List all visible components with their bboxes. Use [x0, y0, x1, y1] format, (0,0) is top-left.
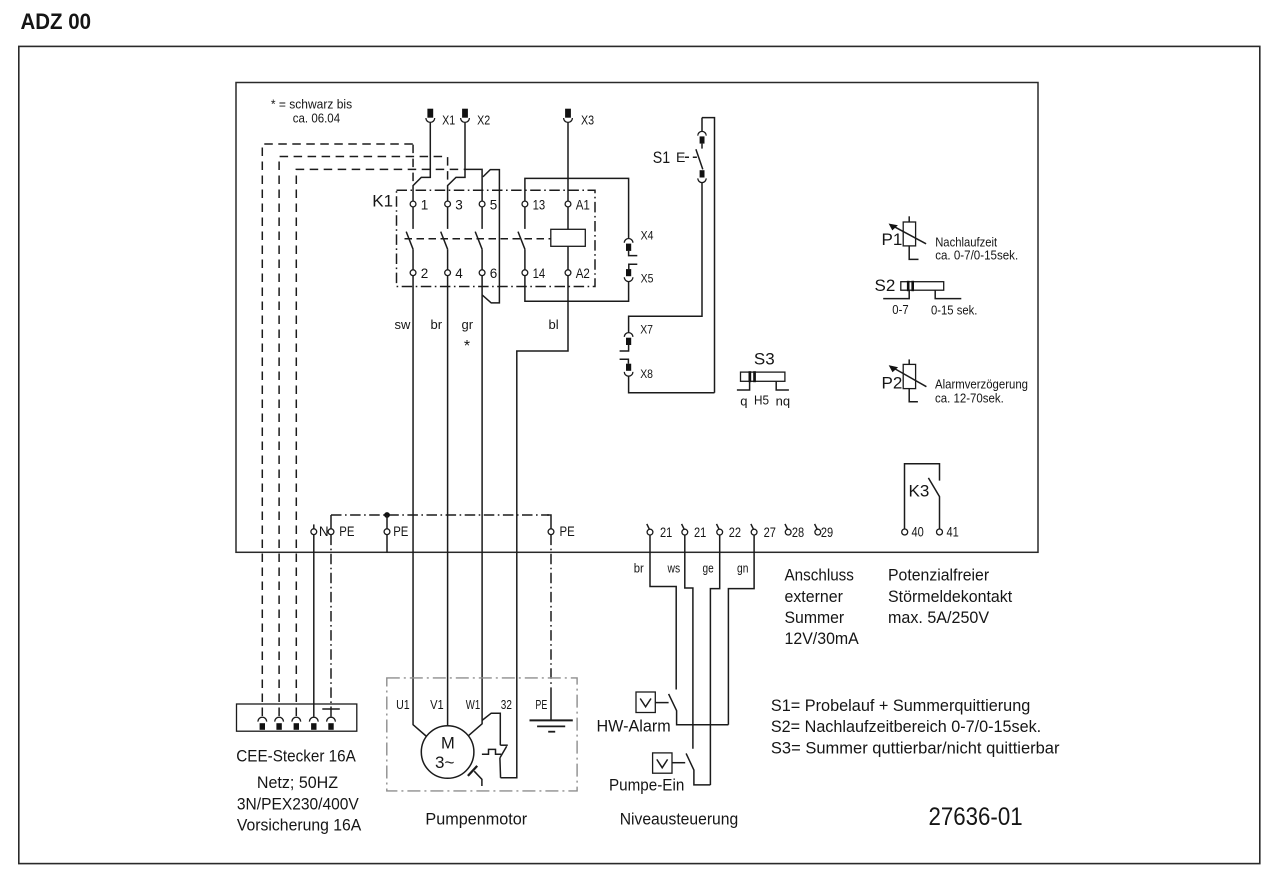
wire 32 branch from gr to thermal contact: [482, 713, 500, 745]
svg-text:Summer: Summer: [785, 608, 845, 627]
motor M 3~ circle: [421, 726, 474, 779]
svg-text:H5: H5: [754, 393, 769, 408]
terminal 21 (second): [682, 524, 685, 529]
svg-text:PE: PE: [339, 524, 354, 539]
svg-text:S2= Nachlaufzeitbereich 0-7/0-: S2= Nachlaufzeitbereich 0-7/0-15sek.: [771, 717, 1041, 736]
contactor K1 dash-dot enclosure: [397, 190, 596, 286]
svg-text:U1: U1: [396, 697, 410, 712]
svg-text:X8: X8: [640, 367, 653, 381]
svg-text:28: 28: [792, 525, 804, 540]
float switch HW-Alarm: [636, 692, 728, 725]
svg-text:Anschluss: Anschluss: [785, 566, 854, 585]
wire gn from terminal 27 to HW-Alarm output: [728, 535, 754, 725]
CEE plug housing: [237, 704, 357, 731]
terminal X5: [624, 264, 653, 285]
legend S1 S2 S3: [771, 696, 1060, 758]
svg-text:PE: PE: [535, 697, 547, 712]
svg-text:ca. 12-70sek.: ca. 12-70sek.: [935, 391, 1004, 406]
terminal 40: [902, 529, 908, 535]
svg-text:HW-Alarm: HW-Alarm: [597, 717, 671, 736]
terminal PE 2: [384, 529, 390, 535]
wire ge from terminal 22 to Pumpe-Ein output: [710, 535, 719, 785]
terminal 22: [717, 524, 720, 529]
terminal PE 1: [330, 515, 332, 529]
svg-text:X4: X4: [641, 229, 654, 243]
slide switch S2: [875, 276, 962, 299]
svg-text:V1: V1: [430, 697, 444, 712]
PE dash-dot bus: [331, 514, 549, 516]
svg-text:S2: S2: [875, 276, 896, 295]
wire contact 13 feed loop to X4: [525, 178, 629, 238]
svg-text:Netz; 50HZ: Netz; 50HZ: [257, 773, 338, 792]
wire N down to plug pin 4: [313, 535, 315, 717]
terminal X7: [620, 323, 654, 352]
CEE plug pin 1: [258, 717, 267, 730]
svg-text:3N/PEX230/400V: 3N/PEX230/400V: [237, 795, 360, 814]
wire X1 feed with jog to contact 1: [413, 123, 430, 202]
svg-text:21: 21: [694, 525, 706, 540]
CEE plug pin 4: [309, 717, 318, 730]
wire X2 feed with jog to contact 3: [448, 123, 465, 202]
switch S1: [653, 118, 706, 183]
terminal X3: [565, 109, 571, 118]
svg-text:gn: gn: [737, 561, 748, 576]
svg-text:PE: PE: [393, 524, 408, 539]
relay contact K3: [905, 464, 940, 529]
svg-text:13: 13: [533, 197, 546, 212]
PE marking tick in plug: [322, 708, 340, 710]
wire ws from terminal 21 to Pumpe-Ein: [685, 535, 693, 749]
junction PE bus node: [384, 512, 390, 518]
terminal 28: [785, 524, 788, 529]
svg-text:ge: ge: [703, 561, 714, 576]
K1 contact 3-4: [441, 197, 464, 281]
svg-text:3: 3: [455, 197, 463, 212]
svg-text:br: br: [431, 317, 443, 332]
K1 auxiliary contact 13-14: [518, 197, 546, 281]
dashed supply wire from plug pin 1 to contact 1: [262, 144, 413, 716]
svg-text:nq: nq: [776, 394, 790, 409]
svg-text:ADZ 00: ADZ 00: [21, 9, 92, 34]
svg-text:CEE-Stecker 16A: CEE-Stecker 16A: [236, 746, 356, 765]
thermal element symbol: [482, 749, 501, 754]
svg-text:Störmeldekontakt: Störmeldekontakt: [888, 587, 1012, 606]
wire sw phase down to motor: [413, 276, 427, 737]
float switch Pumpe-Ein: [653, 753, 711, 785]
K1 contact 1-2: [406, 197, 428, 281]
terminal 41: [937, 529, 943, 535]
K1 coil A1-A2: [551, 197, 590, 281]
wire S1 top elbow to right riser: [702, 118, 715, 393]
potentiometer P2: [882, 359, 927, 401]
wire gr bypass branch (top elbow): [482, 170, 499, 303]
terminal 21 (first): [647, 524, 650, 529]
K1 contact 5-6: [475, 197, 497, 281]
svg-text:P2: P2: [882, 374, 903, 393]
svg-text:6: 6: [490, 266, 498, 281]
svg-text:ca. 0-7/0-15sek.: ca. 0-7/0-15sek.: [935, 247, 1018, 262]
dashed supply wire from plug pin 2 to contact 3: [279, 157, 448, 717]
wire br phase down to motor: [447, 276, 449, 726]
svg-text:3~: 3~: [435, 753, 454, 772]
terminal N: [313, 524, 315, 528]
text block Anschluss externer Summer: [785, 566, 860, 649]
terminal X8: [620, 359, 654, 381]
svg-text:W1: W1: [466, 697, 480, 712]
wire PE 3 down to motor earth: [550, 535, 552, 688]
svg-text:Alarmverzögerung: Alarmverzögerung: [935, 377, 1028, 392]
svg-text:29: 29: [821, 525, 833, 540]
svg-text:X2: X2: [477, 113, 490, 128]
wire S1 bottom to X7: [629, 183, 702, 333]
terminal X1: [427, 109, 433, 118]
wire br from terminal 21 to HW-Alarm: [650, 535, 676, 690]
wire bl from A2 down to thermal contact: [501, 276, 569, 778]
svg-text:27: 27: [764, 525, 776, 540]
wire PE 2 stub to box edge: [386, 535, 388, 553]
svg-text:2: 2: [421, 266, 429, 281]
svg-text:S3= Summer quttierbar/nicht qu: S3= Summer quttierbar/nicht quittierbar: [771, 739, 1060, 758]
svg-text:K3: K3: [909, 482, 930, 501]
CEE plug pin 2: [275, 717, 284, 730]
svg-text:0-7: 0-7: [892, 302, 908, 317]
svg-text:ca. 06.04: ca. 06.04: [293, 111, 340, 126]
svg-text:PE: PE: [560, 524, 575, 539]
svg-text:A1: A1: [576, 197, 590, 212]
svg-text:externer: externer: [785, 587, 844, 606]
wire solid feed into contact 5: [469, 169, 482, 201]
svg-text:X7: X7: [640, 323, 653, 337]
svg-text:ws: ws: [667, 561, 681, 576]
svg-text:gr: gr: [462, 317, 474, 332]
wire X3 feed down to A1: [567, 123, 569, 202]
svg-text:14: 14: [533, 266, 546, 281]
thermal overload contact: [500, 745, 508, 778]
svg-text:S1= Probelauf + Summerquittier: S1= Probelauf + Summerquittierung: [771, 696, 1030, 715]
svg-text:40: 40: [912, 525, 924, 540]
wire contact 14 to below X5: [525, 276, 629, 302]
svg-text:S3: S3: [754, 350, 775, 369]
potentiometer P1: [882, 216, 927, 259]
svg-text:27636-01: 27636-01: [929, 803, 1023, 831]
terminal 29: [815, 524, 818, 529]
svg-text:Potenzialfreier: Potenzialfreier: [888, 566, 989, 585]
svg-text:41: 41: [947, 525, 959, 540]
svg-text:A2: A2: [576, 266, 590, 281]
wire gr phase down to motor: [469, 276, 483, 736]
svg-text:21: 21: [660, 525, 672, 540]
svg-text:12V/30mA: 12V/30mA: [785, 629, 860, 648]
CEE plug pin 3: [292, 717, 301, 730]
wire X8 bottom loop to right riser: [629, 376, 715, 393]
svg-text:*: *: [464, 338, 470, 355]
svg-text:S1: S1: [653, 148, 670, 167]
svg-text:X3: X3: [581, 113, 594, 128]
svg-text:N: N: [319, 524, 329, 539]
inner schematic box: [236, 83, 1038, 553]
motor actuating lever: [468, 766, 482, 786]
svg-text:32: 32: [501, 697, 512, 712]
terminal X4: [624, 229, 653, 256]
svg-text:Pumpe-Ein: Pumpe-Ein: [609, 775, 684, 794]
dashed supply wire from plug pin 3 toward contact 5: [296, 169, 469, 716]
terminal X2: [462, 109, 468, 118]
svg-text:22: 22: [729, 525, 741, 540]
earth ground symbol: [530, 720, 573, 731]
svg-text:q: q: [740, 394, 747, 409]
CEE plug pin 5: [327, 717, 336, 730]
svg-text:Vorsicherung 16A: Vorsicherung 16A: [237, 816, 362, 835]
svg-text:X1: X1: [442, 113, 455, 128]
svg-text:Niveausteuerung: Niveausteuerung: [620, 810, 739, 829]
svg-text:Pumpenmotor: Pumpenmotor: [425, 810, 527, 829]
svg-text:sw: sw: [395, 317, 412, 332]
svg-text:P1: P1: [882, 230, 903, 249]
svg-text:bl: bl: [549, 317, 559, 332]
svg-text:1: 1: [421, 197, 429, 212]
svg-text:4: 4: [455, 266, 463, 281]
K1 mechanical linkage dashed line: [405, 238, 551, 240]
svg-text:E: E: [676, 149, 685, 165]
svg-text:br: br: [634, 561, 645, 576]
svg-text:max. 5A/250V: max. 5A/250V: [888, 608, 990, 627]
slide switch S3: [737, 350, 789, 391]
terminal PE 3: [548, 529, 554, 535]
svg-text:X5: X5: [641, 271, 654, 285]
svg-text:K1: K1: [372, 192, 393, 211]
svg-text:* = schwarz bis: * = schwarz bis: [271, 97, 353, 112]
svg-text:0-15 sek.: 0-15 sek.: [931, 302, 977, 317]
svg-text:5: 5: [490, 197, 498, 212]
text block Potenzialfreier Stoermeldekontakt: [888, 566, 1012, 627]
svg-text:M: M: [441, 734, 455, 752]
wire PE down to plug pin 5: [330, 535, 332, 717]
terminal 27: [751, 524, 754, 529]
pump motor dash-dot enclosure: [387, 678, 577, 791]
